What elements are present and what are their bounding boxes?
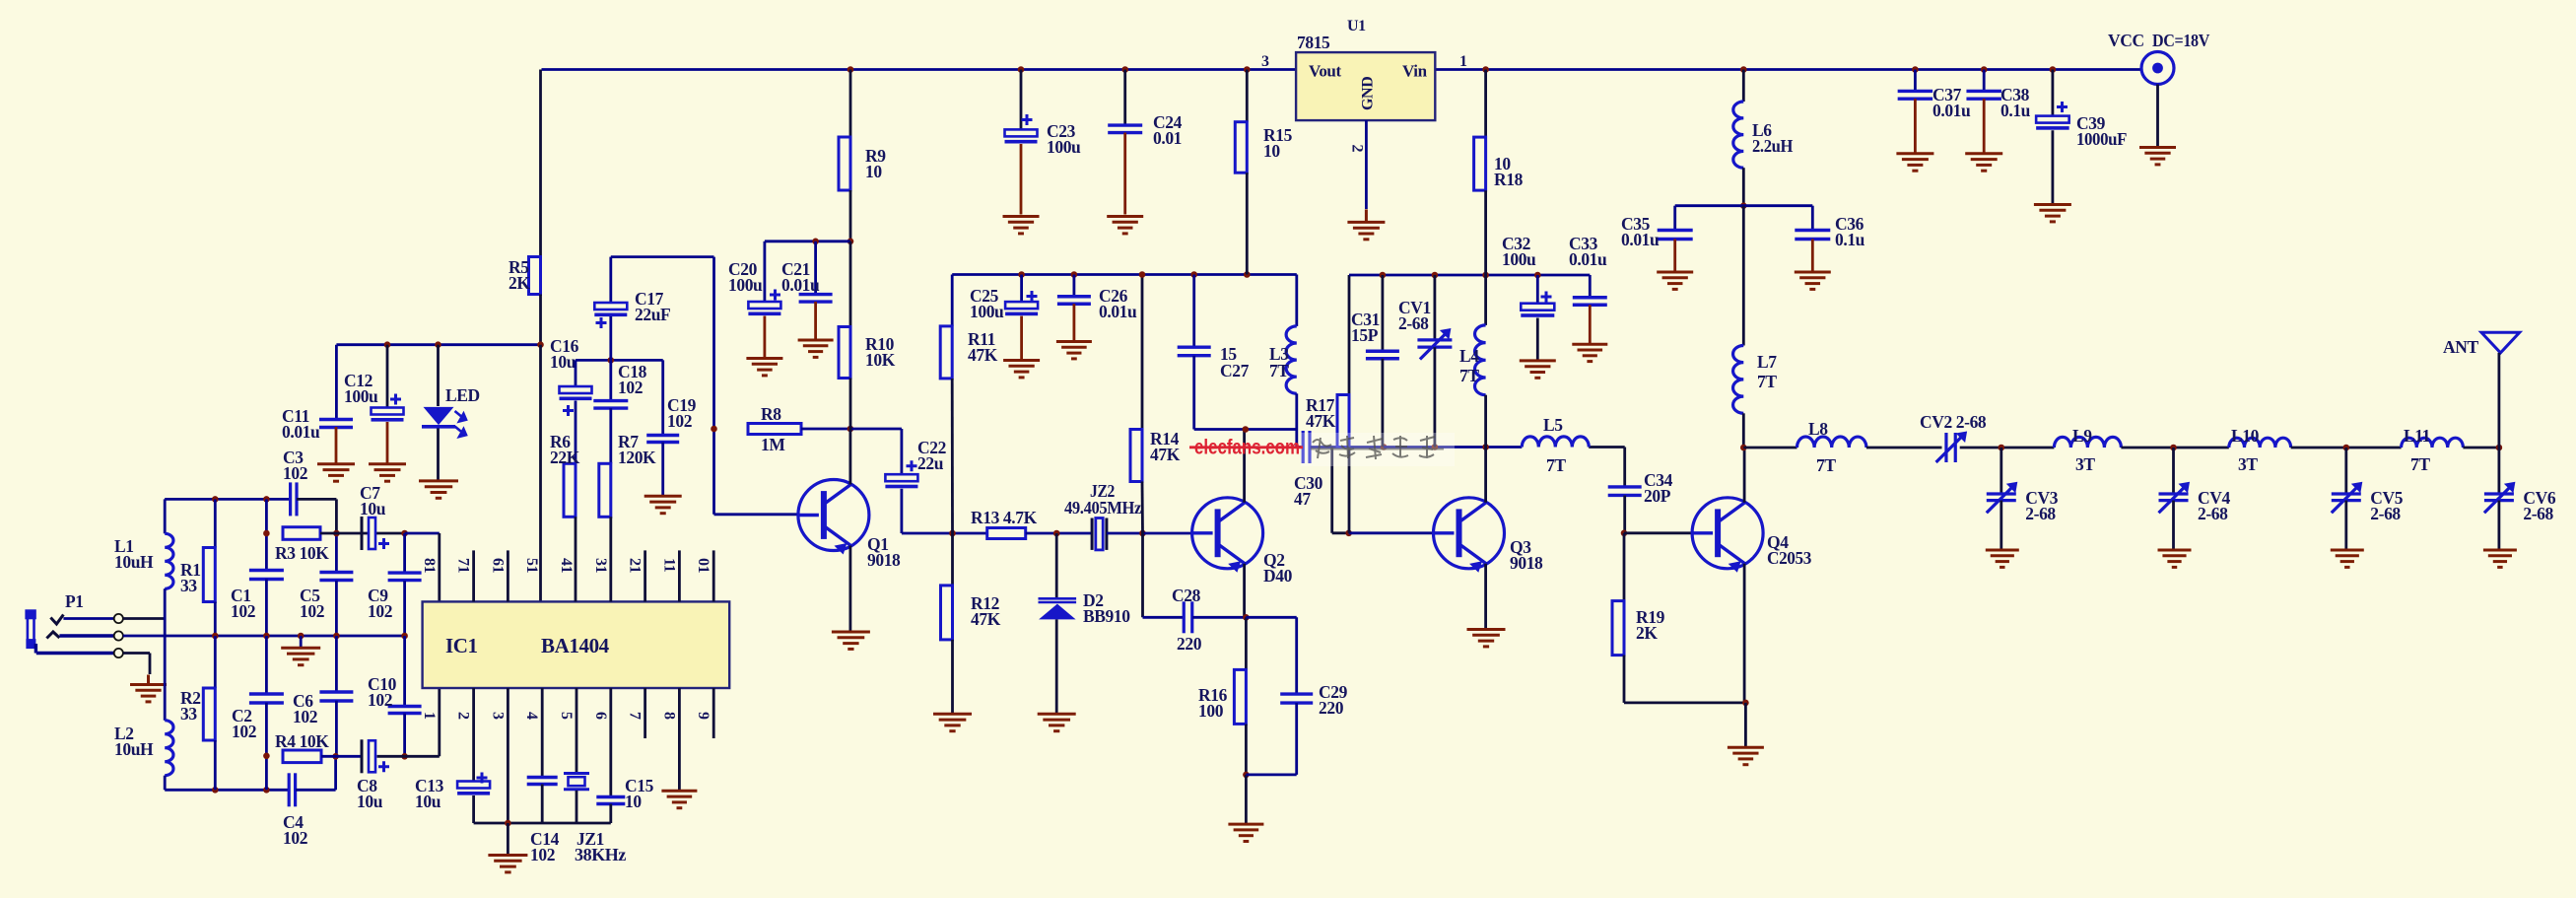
wire R14 to node [1141,482,1144,534]
node Q1 collector [847,426,854,433]
wire to C21 [814,242,817,295]
ground C33 [1572,344,1607,361]
svg-text:R8: R8 [761,404,781,424]
svg-text:120K: 120K [618,448,656,467]
wire supply bus A [952,273,1297,276]
wire C25 to ground [1020,316,1023,359]
wire IC1 pin 1 lead [438,688,441,756]
svg-text:21: 21 [627,558,644,574]
wire C22 top lead [901,429,904,474]
wire rail to L6 [1742,70,1745,103]
svg-text:8: 8 [660,712,677,720]
wire ground bus [123,635,405,638]
ground IC1 pin8 [661,791,697,807]
node C17/C18 [608,357,615,364]
wire node to C19 [661,360,664,435]
svg-text:L5: L5 [1543,415,1563,435]
wire C29 bottom lead [1295,703,1298,775]
capacitor C32 [1521,304,1554,311]
svg-text:BA1404: BA1404 [541,634,610,657]
wire to C11 [335,345,338,420]
node rail-C38 [1981,66,1988,73]
node C31 bottom [1381,444,1388,450]
resistor R9 [839,137,850,190]
node C26 [1071,271,1078,278]
svg-text:R4 10K: R4 10K [275,731,329,751]
resistor R17 [1337,395,1349,448]
capacitor CV2 variable [1936,433,1963,462]
node R3 right [333,530,340,537]
node Q2 emitter [1243,614,1250,621]
wire node to D2 [1055,533,1058,597]
antenna ANT [2481,332,2520,353]
svg-text:L11: L11 [2404,426,2430,446]
svg-text:7815: 7815 [1297,33,1330,52]
resistor R7 [599,463,611,517]
wire C2 top lead [265,636,268,694]
capacitor C33 [1573,298,1607,306]
terminal P1 sleeve [114,649,123,657]
svg-text:2-68: 2-68 [1398,313,1429,333]
crystal JZ2 [1092,518,1107,550]
svg-text:10: 10 [625,792,642,811]
wire CV3 to ground [2000,501,2002,549]
svg-text:2-68: 2-68 [2370,504,2401,523]
wire U1 GND pin down [1365,120,1368,209]
svg-text:1000uF: 1000uF [2076,129,2127,149]
wire ANT lead [2497,353,2500,448]
wire rail to C38 [1983,70,1986,92]
wire L4 to row [1484,395,1487,448]
wire C36 to ground [1811,240,1814,271]
wire Q2 collector [1243,430,1246,503]
node C31 top [1380,272,1387,279]
svg-text:9: 9 [695,712,712,720]
node C1 top [263,496,270,503]
ground C36 [1795,272,1831,289]
wire to C29 top [1246,616,1296,619]
ground C11 [317,464,355,481]
wire bottom rail right [296,789,336,792]
wire top rail left (Vout side) [542,68,1297,71]
svg-text:ANT: ANT [2443,337,2478,357]
wire L8 to CV2 [1866,447,1942,449]
node CV6/ANT [2496,445,2503,451]
wire C23 to ground [1020,144,1023,215]
wire C18 to R7 [609,408,612,463]
node R1 bottom [212,633,219,640]
wire to C33 [1589,275,1592,298]
svg-text:10uH: 10uH [114,739,154,759]
wire L7 to Q4 collector node [1742,413,1745,448]
wire input top bus left [165,498,290,501]
capacitor C18 [593,401,628,409]
wire Q1 emitter [849,546,852,632]
svg-text:51: 51 [523,558,540,574]
inductor L7 [1733,346,1744,414]
terminal P1 ring [114,631,123,640]
svg-text:102: 102 [232,722,256,741]
node R2 bottom [212,787,219,794]
wire C17 top to base column [611,255,714,258]
svg-text:VCC: VCC [2108,31,2144,50]
svg-text:220: 220 [1177,634,1202,654]
wire R18 to bus B [1484,190,1487,275]
wire node to CV6 [2497,448,2500,494]
wire top bus to L1 [164,499,167,533]
wire C6 top lead [335,636,338,692]
wire C16 to R6 [575,401,577,464]
node C16 junction [537,341,544,348]
svg-text:Vout: Vout [1309,62,1341,81]
wire Q1 collector [849,429,852,485]
wire L5 to C34 corner [1589,446,1625,449]
capacitor C25 [1005,302,1038,309]
capacitor C5 [319,573,353,581]
capacitor C7 [361,517,364,550]
svg-text:20P: 20P [1644,486,1671,506]
ground input bus [281,648,320,664]
wire corner to C34 [1623,448,1626,488]
wire IC1 pin 3 lead [507,688,509,823]
svg-text:10u: 10u [415,792,441,811]
node C2 bottom [263,787,270,794]
svg-text:7T: 7T [1757,372,1777,391]
wire rail to R5 [539,70,542,257]
wire to C31 [1382,275,1385,351]
node R3 left [263,530,270,537]
wire to C36 [1811,206,1814,231]
wire bus B to R17 [1348,275,1351,395]
svg-text:10: 10 [1263,141,1280,161]
svg-text:1: 1 [421,712,438,720]
resistor R19 [1612,601,1624,656]
wire C19 to ground [661,443,664,496]
ground C35 [1657,272,1693,289]
wire node to CV3 [2000,448,2002,494]
wire C8 to node [377,755,405,758]
wire R17 to node [1348,448,1351,533]
svg-text:4: 4 [523,712,540,720]
wire C9 bottom lead [403,581,406,636]
svg-text:2-68: 2-68 [2198,504,2228,523]
capacitor C38 [1966,91,2001,99]
wire C1 top lead [265,499,268,570]
node CV1 top [1432,272,1439,279]
node rail-L6 [1740,66,1747,73]
svg-text:100u: 100u [1502,249,1536,269]
capacitor C8 [361,739,364,773]
resistor R11 [940,326,952,379]
svg-text:P1: P1 [65,591,84,611]
node ground tap [298,633,305,640]
node C9 top [401,530,408,537]
ground C26 [1056,342,1092,359]
resistor R13 [987,528,1026,539]
wire LED/C12 branch rail [336,343,540,346]
diode D2 BB910 varactor [1039,598,1077,602]
svg-text:DC=18V: DC=18V [2152,31,2210,50]
wire rail to C39 [2051,70,2054,116]
svg-text:LED: LED [445,385,480,405]
contact P1 ring [46,632,59,639]
svg-text:102: 102 [530,845,555,864]
wire C31 to row [1382,359,1385,448]
wire node to L7 [1742,206,1745,346]
svg-text:0.01u: 0.01u [1569,249,1607,269]
node C27 top [1190,271,1197,278]
wire R8 to collector node [801,428,850,431]
svg-text:47K: 47K [968,345,998,365]
wire to Q3 base [1349,531,1434,534]
capacitor C13 [457,782,490,789]
wire IC1 pin 12 stub [644,550,646,601]
svg-text:L9: L9 [2072,426,2092,446]
wire C9 top lead [403,533,406,573]
wire R3 to C7 to C9 node [320,532,405,535]
wire tank corner to C30 row [1295,430,1298,448]
svg-text:2: 2 [1349,145,1366,153]
node Q4 emitter [1742,700,1749,707]
capacitor C2 [249,694,284,703]
inductor L6 [1733,102,1744,168]
resistor R1 [203,548,215,602]
wire IC1 pin 10 stub [712,550,715,601]
wire Q2 emitter [1243,564,1246,618]
resistor R12 [941,586,953,640]
svg-text:102: 102 [667,411,692,431]
ground C12 [369,464,406,481]
wire node to R12 [951,533,954,586]
wire L11 to ANT node [2463,447,2499,449]
node R9/R10 [847,239,854,245]
wire R13 to JZ2 [1026,532,1092,535]
node CV4 [2170,445,2177,451]
wire bottom rail left [165,789,289,792]
capacitor CV3 variable [1987,486,2016,513]
node LED tap [435,341,441,348]
svg-text:5: 5 [558,712,575,720]
capacitor C24 [1108,125,1142,133]
node rail-R18 pin1 [1482,66,1489,73]
svg-text:L4: L4 [1459,346,1479,366]
svg-text:9018: 9018 [867,550,901,570]
wire R6 to IC1 pin 14 [575,517,577,601]
wire IC1 bottom bus [474,822,611,825]
wire node to R16 [1245,617,1248,669]
wire IC1 pin 17 stub [472,550,475,601]
svg-text:100u: 100u [970,302,1004,321]
wire L1 to L2 [164,588,167,720]
node R14/Q2 base [1139,530,1146,537]
connector P1 plug body [25,609,35,649]
node C21 tap [812,239,819,245]
ground C25 [1003,361,1040,378]
wire to C20 [764,242,767,302]
wire C12 to ground [386,422,389,463]
svg-text:47K: 47K [971,609,1001,629]
node D2 tap [1053,530,1060,537]
svg-text:0.1u: 0.1u [1835,230,1865,249]
wire C27 top lead [1192,275,1195,348]
wire to Q2 base [1143,532,1192,535]
wire C20 to ground [764,316,767,358]
svg-text:R3 10K: R3 10K [275,543,329,563]
wire C38 to ground [1983,99,1986,152]
capacitor C34 [1608,487,1642,496]
ground LED [419,481,458,498]
wire IC1 pin 2 to C13 [472,688,475,782]
wire node to R19 [1623,533,1626,601]
wire IC1 pin 11 stub [678,550,681,601]
svg-text:D40: D40 [1263,566,1293,586]
svg-text:2.2uH: 2.2uH [1752,136,1794,156]
node Q2 collector/tank [1243,426,1250,433]
wire CV1 to row [1434,347,1437,447]
node C12 tap [384,341,391,348]
resistor R8 [748,424,801,435]
svg-text:47K: 47K [1306,411,1336,431]
svg-text:15P: 15P [1351,325,1379,345]
node CV5 [2343,445,2350,451]
svg-text:102: 102 [618,378,643,397]
wire C30 row to L5 [1384,446,1522,449]
svg-text:CV2 2-68: CV2 2-68 [1920,412,1987,432]
ground D2 [1038,714,1076,730]
wire node to ground [1245,775,1248,823]
svg-text:9018: 9018 [1510,553,1543,573]
svg-text:2-68: 2-68 [2025,504,2056,523]
svg-text:7T: 7T [1459,366,1479,385]
wire C15 to bus [609,804,612,824]
wire C1 bottom lead [265,579,268,636]
node R11/R12/R13 [949,530,956,537]
inductor L2 [165,721,173,776]
ground C20 [746,359,782,376]
ground Q2 stage [1228,824,1263,841]
svg-text:7T: 7T [1816,455,1836,475]
ground C24 [1107,217,1143,234]
svg-text:7: 7 [627,712,644,720]
capacitor C35 [1658,231,1693,240]
capacitor CV5 variable [2332,486,2361,513]
wire R19 down [1623,656,1626,703]
wire C5 top lead [335,533,338,572]
wire R4 to C8 [321,755,364,758]
ground CV5 [2331,550,2364,567]
wire L10 to L11 [2291,447,2402,449]
capacitor C17 [594,303,627,310]
wire node to CV4 [2172,448,2175,494]
wire rail to C37 [1914,70,1917,92]
svg-text:38KHz: 38KHz [575,845,627,864]
capacitor C27 [1178,347,1211,356]
wire to LED [437,345,440,406]
ground U1 pin2 [1347,209,1385,239]
wire C2 bottom lead [265,703,268,791]
capacitor C15 [596,797,625,804]
svg-text:2: 2 [455,712,472,720]
node CV1 bottom [1432,444,1439,450]
wire top bus corner down to R3 node [335,499,338,533]
svg-text:1: 1 [1459,53,1467,70]
wire to C26 [1073,275,1076,297]
inductor L8 [1796,437,1865,448]
svg-text:41: 41 [558,558,575,574]
wire to Q4 base [1624,531,1692,534]
capacitor C21 [799,295,833,303]
svg-text:C27: C27 [1220,361,1250,380]
svg-text:0.01u: 0.01u [1621,230,1660,249]
ground Q4 [1728,747,1764,764]
wire C11 to ground [335,427,338,463]
wire IC1 pin 9 stub [712,688,715,738]
svg-text:71: 71 [455,558,472,574]
resistor R2 [203,688,215,740]
wire C29 top lead [1295,617,1298,694]
wire to C17 [609,257,612,303]
wire rail to R15 [1246,70,1249,122]
capacitor C20 [748,302,780,309]
crystal JZ1 [564,774,589,790]
wire C28 to emitter node [1192,616,1246,619]
wire R1 to ground bus [214,602,217,637]
resistor R18 [1474,137,1486,190]
wire node to pin18 corner [405,532,440,535]
wire L6 to node [1742,168,1745,206]
regulator U1 7815 body [1296,52,1435,120]
svg-text:0.01u: 0.01u [1932,101,1971,120]
ground VCC [2139,148,2176,165]
node rail-C24 [1121,66,1128,73]
svg-text:49.405MHz: 49.405MHz [1064,498,1142,518]
capacitor CV1 variable [1417,333,1452,360]
node L4 top [1482,272,1489,279]
wire C10 top lead [403,636,406,706]
svg-text:L10: L10 [2231,426,2260,446]
wire IC1 pin 5 to JZ1 [576,688,578,773]
svg-text:61: 61 [489,558,506,574]
power VCC terminal [2141,52,2174,85]
capacitor C23 [1005,129,1038,136]
capacitor C31 [1366,351,1399,359]
ground C32 [1520,361,1556,378]
svg-text:3: 3 [489,712,506,720]
wire R2 to bottom rail [214,740,217,790]
svg-text:1M: 1M [761,435,785,454]
svg-text:C28: C28 [1172,586,1201,605]
wire node to pin1 corner [405,755,440,758]
inductor L1 [165,533,173,588]
svg-text:10u: 10u [357,792,383,811]
inductor L5 [1522,437,1589,448]
svg-text:11: 11 [660,558,677,573]
node C9/C10 [401,633,408,640]
wire bus to R14 [1141,275,1144,430]
wire C26 to ground [1073,304,1076,340]
svg-text:10K: 10K [865,350,896,370]
wire C10 bottom lead [403,714,406,757]
svg-text:47: 47 [1294,489,1311,509]
wire Q3 emitter [1484,564,1487,628]
capacitor C30 [1303,431,1310,463]
wire node to IC1 pin 15 [539,345,542,602]
svg-text:10u: 10u [360,499,386,518]
wire C33 to ground [1589,305,1592,343]
wire Q3 collector [1484,448,1487,503]
svg-text:7T: 7T [1546,455,1566,475]
wire CV2 to L9 [1960,447,2055,449]
